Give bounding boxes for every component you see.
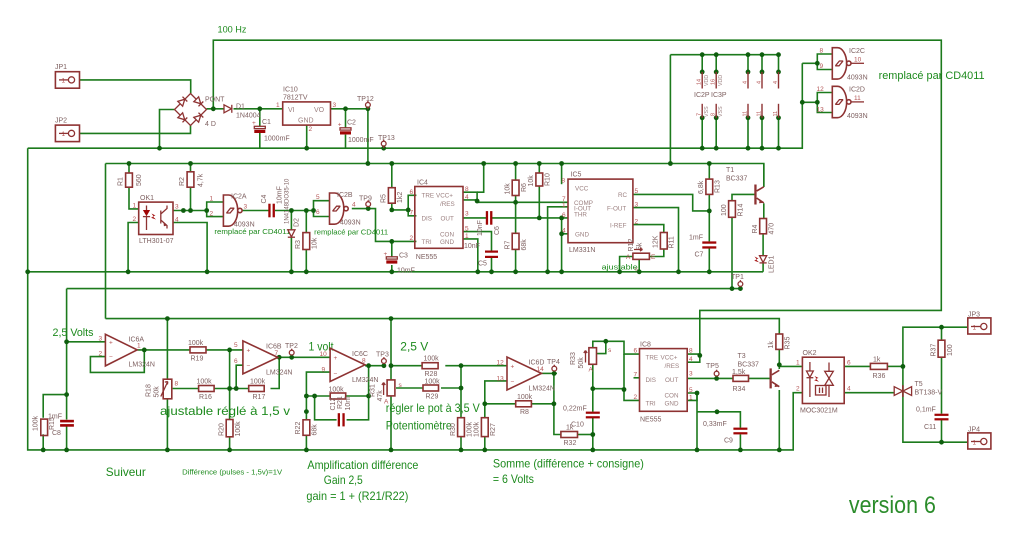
- svg-text:OK2: OK2: [803, 350, 817, 357]
- led LED1: [754, 255, 775, 273]
- svg-text:TP13: TP13: [378, 135, 395, 142]
- wire lower rail y=288.6 (TP1 net): [67, 288, 741, 290]
- wire R35 bottom to T3 collector node: [778, 349, 780, 369]
- svg-text:VDD: VDD: [718, 75, 724, 86]
- wire R15 bottom to bottom rail: [42, 434, 44, 450]
- wire bridge right vertex to D1: [207, 108, 225, 110]
- svg-text:11: 11: [773, 111, 779, 117]
- test point TP1: [731, 274, 744, 286]
- wire R5 bottom to IC4 pins 6/7 tie: [392, 203, 408, 210]
- wire TP4 stub: [553, 371, 555, 373]
- resistor R4 470: [752, 219, 776, 235]
- svg-text:régler le pot à 3,5 V: régler le pot à 3,5 V: [386, 401, 480, 415]
- capacitor C6 10nF: [477, 211, 501, 236]
- svg-text:11: 11: [757, 111, 763, 117]
- wire IC6B -in drop: [236, 365, 243, 388]
- wire IC6D out riser down to R32: [554, 373, 561, 434]
- svg-text:2: 2: [635, 219, 639, 226]
- svg-text:IC2D: IC2D: [849, 87, 865, 94]
- svg-text:VSS: VSS: [704, 106, 710, 117]
- svg-text:TRE: TRE: [422, 193, 435, 200]
- wire TP9 stub: [367, 207, 369, 209]
- wire C12 right to out riser: [347, 366, 369, 420]
- svg-text:2: 2: [99, 351, 103, 358]
- wire R18 wiper to R16: [173, 388, 199, 390]
- test point TP12: [357, 96, 374, 109]
- svg-text:C10: C10: [571, 422, 584, 429]
- svg-text:3: 3: [244, 204, 248, 211]
- svg-text:12: 12: [817, 86, 825, 93]
- svg-text:LM331N: LM331N: [569, 247, 595, 254]
- wire R28 right to IC6D +in: [445, 365, 507, 367]
- svg-text:4093N: 4093N: [847, 75, 868, 82]
- svg-text:6: 6: [316, 209, 320, 216]
- svg-text:ajustable: ajustable: [602, 263, 638, 272]
- wire IC4 pin6-pin7 tie: [408, 195, 416, 216]
- wire R2 top from rail: [190, 164, 192, 172]
- svg-text:100k: 100k: [424, 356, 440, 363]
- wire IC2C input tie: [817, 54, 832, 70]
- svg-text:F-OUT: F-OUT: [607, 206, 626, 213]
- svg-text:R30: R30: [450, 423, 457, 436]
- svg-text:3: 3: [689, 371, 693, 378]
- resistor R16 100k: [197, 379, 215, 402]
- svg-text:IC2B: IC2B: [337, 192, 353, 199]
- svg-text:100k: 100k: [467, 421, 474, 437]
- svg-text:C8: C8: [52, 430, 61, 437]
- wire IC8 OUT to R34: [687, 377, 733, 379]
- svg-text:IC4: IC4: [417, 180, 428, 187]
- wire D2 bottom: [290, 238, 292, 272]
- svg-text:TRI: TRI: [422, 239, 432, 246]
- svg-text:4: 4: [773, 81, 779, 84]
- svg-text:4 D: 4 D: [205, 121, 216, 128]
- wire R10 top from rail: [538, 164, 540, 174]
- svg-text:1k: 1k: [768, 341, 775, 349]
- svg-text:100k: 100k: [250, 379, 266, 386]
- wire IC5 GND node up to THR dot: [561, 218, 563, 234]
- test point TP3: [376, 352, 389, 364]
- wire C10 node to IC8 TRE/TRI tie: [593, 388, 624, 390]
- wire x=66.6 continues down to C8: [66, 342, 68, 420]
- wire R20 bottom to bottom rail: [229, 437, 231, 450]
- diode D2 1N4148DO35-10: [285, 178, 301, 237]
- svg-text:4: 4: [352, 202, 356, 209]
- svg-text:10: 10: [854, 57, 862, 64]
- svg-text:1: 1: [465, 233, 469, 240]
- resistor R10 10k: [528, 173, 552, 187]
- wire R5 top from rail: [391, 164, 393, 188]
- wire JP2 to bridge bottom: [80, 126, 191, 134]
- wire OK2 pin6 to R36: [844, 365, 870, 367]
- wire R13 top from rail: [708, 164, 710, 180]
- svg-text:JP1: JP1: [55, 64, 67, 71]
- resistor R29 100k: [423, 379, 440, 401]
- svg-text:C6: C6: [494, 226, 501, 235]
- wire C12 branch: [315, 396, 337, 420]
- wire pot R12 wiper to ground rail: [638, 259, 640, 272]
- wire C9 branch: [697, 412, 740, 428]
- svg-text:1: 1: [796, 360, 800, 367]
- wire opamp 2.5V supply rail y=318.6 to R35: [106, 319, 780, 334]
- wire IC2C input feed: [802, 62, 817, 64]
- wire +in node drop to R20: [229, 350, 231, 420]
- svg-text:6: 6: [410, 189, 414, 196]
- wire IC8 GND riser to bottom rail: [696, 393, 698, 450]
- svg-text:50k: 50k: [154, 386, 161, 398]
- diode D1 1N4004: [224, 104, 261, 120]
- svg-text:R17: R17: [253, 394, 266, 401]
- svg-text:1k: 1k: [873, 357, 881, 364]
- svg-text:8: 8: [689, 348, 693, 355]
- svg-text:1k2: 1k2: [397, 192, 404, 203]
- svg-text:R29: R29: [426, 394, 439, 401]
- wire IC6D -in drop to R8 and R27: [485, 381, 507, 418]
- wire LED1 cathode to ground rail: [762, 264, 764, 272]
- resistor R19 100k: [188, 340, 206, 363]
- wire R17 feedback to IC6B out: [271, 357, 280, 388]
- wire R3 drop: [305, 211, 307, 233]
- svg-text:1000mF: 1000mF: [264, 136, 290, 143]
- wire R8 left: [485, 403, 516, 405]
- wire IC6A feedback loop: [90, 350, 144, 373]
- test point TP9: [359, 196, 372, 207]
- svg-text:10nF: 10nF: [464, 243, 480, 250]
- svg-text:R5: R5: [381, 194, 388, 203]
- resistor R14 100: [721, 201, 745, 218]
- svg-text:BC337: BC337: [738, 362, 760, 369]
- resistor R3 10k: [295, 233, 319, 250]
- svg-text:OK1: OK1: [140, 195, 154, 202]
- svg-text:R34: R34: [733, 386, 746, 393]
- svg-text:DIS: DIS: [422, 216, 433, 223]
- power pins IC2P IC3P: [694, 72, 779, 118]
- resistor R7 68k: [505, 233, 529, 250]
- svg-text:100k: 100k: [197, 379, 213, 386]
- connector JP4: [968, 427, 991, 450]
- capacitor C5 10nF: [464, 243, 498, 268]
- resistor R13 6,8k: [698, 179, 722, 194]
- svg-text:R10: R10: [545, 173, 552, 186]
- wire R15 branch: [43, 395, 66, 418]
- svg-text:C12: C12: [330, 398, 337, 411]
- svg-text:8: 8: [465, 186, 469, 193]
- capacitor C3 10mF: [384, 251, 415, 275]
- svg-text:3: 3: [635, 202, 639, 209]
- wire R10 bottom to THR net: [538, 186, 540, 218]
- svg-text:VCC+: VCC+: [661, 355, 678, 362]
- wire R21 right to out riser: [346, 395, 369, 397]
- resistor R30 100k: [450, 418, 474, 437]
- svg-text:R27: R27: [490, 423, 497, 436]
- svg-text:C2: C2: [347, 120, 356, 127]
- svg-text:R1: R1: [118, 177, 125, 186]
- wire OK1 pin4 to ground rail: [173, 223, 207, 272]
- resistor R20 100k: [219, 420, 243, 437]
- svg-text:IC5: IC5: [571, 172, 582, 179]
- wire R36 right to triac node: [887, 365, 903, 367]
- svg-text:5: 5: [635, 188, 639, 195]
- svg-text:GND: GND: [298, 118, 314, 125]
- svg-text:2: 2: [796, 386, 800, 393]
- svg-text:TP9: TP9: [359, 196, 372, 203]
- svg-text:10mF: 10mF: [397, 268, 415, 275]
- svg-text:0,22mF: 0,22mF: [563, 406, 587, 413]
- svg-text:6,8k: 6,8k: [698, 180, 705, 194]
- timer IC4 NE555: [410, 180, 470, 262]
- voltage regulator IC10 7812TV: [276, 87, 337, 134]
- svg-text:100k: 100k: [188, 340, 204, 347]
- svg-text:OUT: OUT: [441, 216, 454, 223]
- svg-text:R21: R21: [337, 396, 344, 409]
- svg-text:−: −: [511, 379, 515, 386]
- nand gate IC2C 4093N: [820, 48, 868, 82]
- svg-text:remplacé par CD4011: remplacé par CD4011: [879, 70, 985, 82]
- svg-text:6: 6: [847, 360, 851, 367]
- svg-text:Différence (pulses - 1,5v)=1V: Différence (pulses - 1,5v)=1V: [182, 467, 282, 476]
- timer IC8 NE555: [634, 342, 694, 424]
- svg-text:4: 4: [562, 228, 566, 235]
- svg-text:100k: 100k: [235, 421, 242, 437]
- svg-text:10k: 10k: [528, 175, 535, 187]
- svg-text:100: 100: [947, 344, 954, 356]
- svg-text:2: 2: [410, 235, 414, 242]
- svg-text:= 6 Volts: = 6 Volts: [493, 472, 534, 486]
- svg-text:10: 10: [320, 351, 328, 358]
- svg-text:R2: R2: [179, 177, 186, 186]
- transistor T3 BC337: [738, 353, 780, 388]
- wire IC6A out to R19: [137, 349, 190, 351]
- svg-text:PONT: PONT: [205, 97, 225, 104]
- power pin stubs VDD row: [701, 55, 703, 72]
- svg-text:TRI: TRI: [646, 401, 656, 408]
- svg-text:10nF: 10nF: [477, 220, 484, 236]
- bridge rectifier PONT 4D: [175, 94, 226, 129]
- svg-text:8: 8: [711, 113, 717, 116]
- svg-text:100k: 100k: [425, 379, 441, 386]
- svg-text:T5: T5: [915, 381, 923, 388]
- wire IC8 VCC/RES tie: [687, 354, 700, 362]
- svg-text:13: 13: [497, 376, 505, 383]
- wire R19 to IC6B +in: [206, 349, 243, 351]
- svg-text:R8: R8: [520, 409, 529, 416]
- wire R21 branch: [306, 395, 330, 397]
- svg-text:LED1: LED1: [769, 255, 776, 273]
- svg-text:VCC: VCC: [575, 186, 589, 193]
- wire C3 bottom to ground rail: [391, 265, 393, 272]
- wire IC2A output to C4: [242, 210, 269, 212]
- svg-text:100 Hz: 100 Hz: [218, 25, 247, 35]
- svg-text:VCC+: VCC+: [436, 193, 453, 200]
- svg-text:IC2P: IC2P: [694, 92, 710, 99]
- svg-text:12K: 12K: [653, 235, 660, 248]
- svg-text:4: 4: [465, 194, 469, 201]
- wire IC4 OUT to C6: [463, 217, 486, 219]
- wire R11 bottom to pot R12 E: [649, 249, 663, 257]
- svg-text:4093N: 4093N: [847, 113, 868, 120]
- svg-text:THR: THR: [574, 212, 587, 219]
- resistor R2 4,7k: [179, 172, 205, 187]
- resistor R1 560: [118, 173, 144, 187]
- svg-text:R13: R13: [715, 180, 722, 193]
- svg-text:470: 470: [769, 223, 776, 235]
- svg-text:4093N: 4093N: [340, 220, 361, 227]
- wire IC5 I-REF to R11: [633, 225, 664, 233]
- svg-text:1N4148DO35-10: 1N4148DO35-10: [285, 178, 291, 224]
- svg-text:1mF: 1mF: [48, 414, 62, 421]
- svg-text:8: 8: [362, 358, 366, 365]
- wire IC5 F-OUT to ground rail: [633, 208, 679, 272]
- svg-text:IC3P: IC3P: [711, 92, 727, 99]
- svg-text:IC10: IC10: [283, 87, 298, 94]
- wire IC6C -in loop to R21/C12: [306, 372, 330, 412]
- svg-text:R7: R7: [505, 240, 512, 249]
- svg-text:R31: R31: [370, 384, 377, 397]
- svg-text:TP1: TP1: [731, 274, 744, 281]
- wire C4 to IC2B inputs: [275, 210, 314, 212]
- svg-text:R16: R16: [199, 394, 212, 401]
- svg-text:MOC3021M: MOC3021M: [800, 408, 838, 415]
- wire OK2 pin1 to collector node: [779, 365, 802, 367]
- connector JP3: [968, 312, 991, 335]
- svg-text:C5: C5: [478, 261, 487, 268]
- svg-text:R37: R37: [931, 344, 938, 357]
- svg-text:D1: D1: [236, 104, 245, 111]
- svg-text:TRE: TRE: [646, 355, 659, 362]
- wire C7 bottom to ground rail: [708, 248, 710, 272]
- svg-text:TP12: TP12: [357, 96, 374, 103]
- power block left riser to +12 rail: [669, 55, 671, 164]
- svg-text:TP4: TP4: [547, 359, 560, 366]
- wire IC5 RC to R13 node: [633, 194, 709, 211]
- svg-text:TP3: TP3: [376, 352, 389, 359]
- wire C10 bottom to bottom rail: [592, 418, 594, 450]
- resistor R15 100k: [33, 415, 57, 435]
- wire R4 bottom to LED1: [762, 234, 764, 256]
- wire C8 bottom to bottom rail: [66, 426, 68, 450]
- svg-text:2: 2: [634, 394, 638, 401]
- wire C11 bottom to JP4 net: [941, 419, 943, 442]
- svg-text:TP5: TP5: [706, 363, 719, 370]
- wire 100Hz: riser from bridge, top run, right drop, y310 run to IC8 VCC: [213, 40, 941, 354]
- wire R28 left to 2.5V vertical: [391, 365, 422, 367]
- svg-text:T1: T1: [726, 167, 734, 174]
- svg-text:10k: 10k: [505, 183, 512, 195]
- svg-text:R28: R28: [425, 371, 438, 378]
- wire IC8 pin6-pin2 tie: [624, 354, 640, 400]
- svg-text:/RES: /RES: [440, 201, 455, 208]
- svg-text:Somme (différence + consigne): Somme (différence + consigne): [493, 457, 644, 471]
- svg-text:D2: D2: [294, 218, 301, 227]
- svg-text:IC8: IC8: [640, 342, 651, 349]
- resistor R17 100k: [249, 379, 266, 402]
- wire OK1 pin2 to ground rail: [128, 223, 139, 272]
- svg-text:9: 9: [820, 63, 824, 70]
- wire R6 top from rail: [515, 164, 517, 181]
- wire T1 collector riser (rail end): [763, 164, 765, 188]
- optocoupler OK1 LTH301-07: [133, 195, 180, 245]
- svg-text:100k: 100k: [33, 415, 40, 431]
- trimmer R12 5k ajustable: [626, 239, 656, 273]
- wire R18 pot feed from opamp rail: [166, 319, 168, 379]
- wire R22 top: [305, 412, 307, 420]
- capacitor C9 0,33mF: [703, 421, 747, 445]
- svg-text:R19: R19: [191, 356, 204, 363]
- resistor R35 1k: [768, 334, 792, 350]
- wire C6 to IC5 THR: [492, 217, 568, 219]
- power block top bus: [670, 54, 778, 56]
- capacitor C10 0,22mF: [563, 406, 600, 429]
- svg-text:LM324N: LM324N: [266, 370, 292, 377]
- wire IC5 VCC riser: [561, 164, 563, 185]
- svg-text:R35: R35: [785, 337, 792, 350]
- svg-text:+: +: [334, 355, 338, 362]
- svg-text:1: 1: [62, 78, 66, 85]
- svg-text:CON: CON: [440, 232, 454, 239]
- capacitor C8 1mF: [48, 414, 74, 438]
- svg-text:GND: GND: [575, 232, 589, 239]
- svg-text:4: 4: [757, 81, 763, 84]
- nand gate IC2D 4093N: [817, 86, 868, 120]
- svg-text:E: E: [651, 254, 656, 261]
- wire IC5 GND drop: [562, 234, 568, 272]
- svg-text:NE555: NE555: [640, 417, 662, 424]
- resistor R37 100: [931, 340, 955, 357]
- svg-text:7: 7: [634, 372, 638, 379]
- svg-text:−: −: [334, 371, 338, 378]
- wire R30 bottom to bottom rail: [460, 437, 462, 450]
- svg-text:C3: C3: [399, 253, 408, 260]
- resistor R5 1k2: [381, 188, 405, 204]
- wire C2 bottom to ground rail: [345, 135, 347, 149]
- wire C5 bottom to ground rail: [491, 258, 493, 272]
- wire R33 pot top feed: [593, 341, 640, 354]
- test point TP5: [706, 363, 719, 376]
- wire pot R31 bottom to bottom rail: [390, 396, 392, 450]
- wire IC8 DIS stub: [634, 377, 640, 379]
- svg-text:6: 6: [562, 212, 566, 219]
- connector JP1: [55, 64, 80, 88]
- svg-text:VI: VI: [288, 107, 295, 114]
- svg-text:10mF: 10mF: [277, 186, 284, 204]
- wire TP13 stub: [383, 146, 385, 148]
- wire TP2 stub: [291, 355, 293, 357]
- svg-text:4: 4: [743, 81, 749, 84]
- svg-text:1: 1: [973, 440, 977, 447]
- resistor R34 1,5k: [732, 369, 749, 393]
- resistor R36 1k: [870, 357, 887, 381]
- svg-text:2: 2: [210, 211, 214, 218]
- svg-text:−: −: [247, 363, 251, 370]
- svg-text:14: 14: [537, 366, 545, 373]
- svg-text:6: 6: [234, 358, 238, 365]
- svg-text:C1: C1: [262, 119, 271, 126]
- trimmer R18 50k: [146, 379, 179, 399]
- wire IC8 CON/GND tie to ground: [687, 393, 697, 400]
- opamp IC6B LM324N: [234, 341, 292, 377]
- svg-text:4,7k: 4,7k: [198, 173, 205, 187]
- wire IC2D input feed: [802, 101, 817, 103]
- svg-text:BC337: BC337: [726, 176, 748, 183]
- svg-text:GND: GND: [440, 239, 454, 246]
- test point TP2: [285, 343, 298, 355]
- svg-text:OUT: OUT: [665, 377, 678, 384]
- svg-text:7: 7: [275, 350, 279, 357]
- svg-text:R36: R36: [873, 373, 886, 380]
- wire R32 right to C10 riser: [578, 434, 593, 436]
- svg-text:5: 5: [465, 226, 469, 233]
- svg-text:+: +: [338, 122, 342, 129]
